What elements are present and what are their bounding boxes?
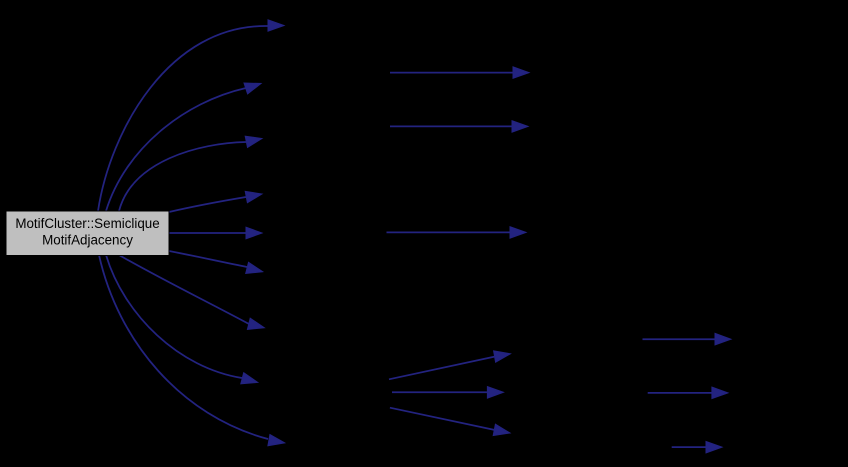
node MotifCluster::SemicliqueMotifAdjacency [6,211,169,256]
edge r3 [672,446,706,448]
arrowhead e1 [268,20,284,31]
edge m1 [390,72,513,74]
arrowhead r3 [706,441,722,453]
svg-text:MotifAdjacency: MotifAdjacency [42,233,133,248]
edge e8 [106,255,242,378]
edge e1 [98,26,268,211]
edge e3 [119,142,246,211]
arrowhead e9 [268,435,285,446]
edge e5 [169,232,246,234]
edge m3 [387,231,511,233]
arrowhead f2 [487,387,503,399]
edge e7 [119,255,249,324]
edge e4 [169,197,246,212]
arrowhead e3 [245,136,262,147]
arrowhead m2 [512,121,528,133]
arrowhead f3 [493,424,510,435]
edge r2 [648,392,712,394]
edge e2 [106,88,246,211]
arrowhead e2 [244,83,261,94]
svg-text:MotifCluster::Semiclique: MotifCluster::Semiclique [15,216,159,231]
edge e6 [169,251,247,267]
edge f1 [389,357,495,380]
arrowhead r2 [712,387,728,399]
arrowhead r1 [715,333,731,345]
edge f2 [392,391,487,393]
edge r1 [643,338,716,340]
arrowhead m1 [513,67,529,79]
arrowhead e4 [245,191,262,202]
arrowhead e7 [247,318,264,329]
edge e9 [99,255,268,439]
arrowhead m3 [510,227,526,239]
arrowhead e6 [246,262,263,273]
edge m2 [390,125,512,127]
edge f3 [390,408,494,430]
arrowhead e8 [241,373,258,384]
arrowhead e5 [246,227,262,239]
arrowhead f1 [494,351,511,362]
